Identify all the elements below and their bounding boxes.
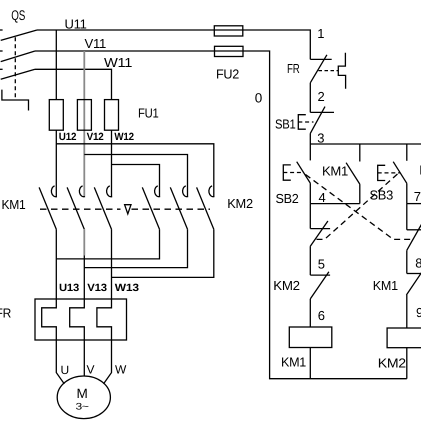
wire U12 to KM2 contact 3 [56,144,214,197]
svg-text:W: W [115,363,127,377]
wire coil KM2 to rail 0 [406,347,408,378]
svg-text:U13: U13 [59,282,79,294]
svg-text:4: 4 [319,190,326,205]
svg-text:KM1: KM1 [322,164,348,179]
wire U-phase drop to FU1 [55,30,57,100]
svg-text:W13: W13 [115,282,139,294]
node 4 label [319,190,326,205]
coil KM2 [387,328,421,348]
fuse FU2-1 [214,26,243,36]
contact KM1 NC right blade [406,270,421,295]
fuse FU2 label [216,67,239,82]
fuse FU1-1 [49,100,63,131]
node 0 label [255,90,262,105]
mechanical linkage triangle [125,205,131,214]
wire V-phase drop to FU1 (gray) [83,51,85,197]
contact KM2 aux label partial [419,163,421,178]
pushbutton SB1 blade [310,107,325,134]
interlock dash SB3 to left branch [317,174,398,240]
node U13 label [59,282,79,294]
thermal relay FR heater 1 [42,299,57,340]
fuse FU1-3 [105,100,119,131]
node W13 label [115,282,139,294]
switch QS pole 2 [0,51,35,62]
contactor KM2 label [227,196,253,211]
contactor KM1 label [2,197,26,212]
contact KM1 aux leg wire [359,144,361,162]
wire V13 link [84,229,187,267]
interlock dash SB2 to right branch [306,175,412,240]
svg-text:QS: QS [11,7,25,23]
switch QS pole 1 [0,30,37,40]
pushbutton SB2 dash link [283,172,303,174]
wire node 2 [309,83,311,113]
wire SB3 to node 7 [406,183,408,203]
wire KM1 contact 3 to FR [111,229,113,299]
contactor KM1 main contact 2 [67,186,85,229]
contact SB3 NC bar [310,228,330,230]
fuse FU1-2 [77,100,91,131]
svg-text:W11: W11 [104,55,132,70]
switch QS label [11,7,25,23]
thermal relay FR heater 2 [70,299,85,340]
wire node 3 [309,133,311,160]
terminal W label [115,363,127,377]
coil KM1 label [281,355,306,370]
fuse FU1 label [138,106,159,121]
coil KM2 label [378,356,406,371]
switch QS pole 3 [0,69,35,79]
pushbutton SB3 label [370,188,394,203]
svg-text:KM2: KM2 [227,196,253,211]
wire node 9 [406,295,408,328]
svg-text:U12: U12 [59,131,77,143]
node 7 bar [407,203,421,205]
svg-text:KM2: KM2 [378,356,406,371]
node W11 label [104,55,132,70]
motor 3-phase label [76,402,90,413]
svg-text:FR: FR [287,61,300,76]
node 4 bar [310,203,360,205]
contact KM1 aux label [322,164,348,179]
switch QS handle [2,90,29,111]
fuse FU2-2 [215,46,244,56]
wire KM1 contact 2 to FR [83,256,85,300]
svg-text:KM1: KM1 [281,355,306,370]
node U12 label [59,131,77,143]
wire KM1 contact 2 lower gray [83,229,85,255]
svg-text:U11: U11 [65,16,87,31]
pushbutton SB1 dash link [298,121,313,123]
svg-text:W12: W12 [114,131,134,143]
svg-text:U: U [61,363,69,377]
pushbutton SB1 bar [310,111,334,113]
wire V11 and return wire 0 [35,51,407,379]
wire KM1 contact 1 to FR [55,229,57,299]
svg-text:SB3: SB3 [370,188,394,203]
svg-text:9: 9 [416,305,421,320]
contact SB3 NC wire [309,204,311,229]
wire U12 vertical [55,130,57,197]
svg-text:0: 0 [255,90,262,105]
node V11 label [85,36,107,51]
contactor KM1 main contact 1 [39,186,57,229]
svg-text:8: 8 [415,255,421,270]
svg-text:FU2: FU2 [216,67,239,82]
node 9 label [416,305,421,320]
contact KM1 NC right label [373,278,398,293]
node U11 label [65,16,87,31]
wire FR to motor V [83,340,85,376]
terminal V label [87,363,95,377]
thermal contact FR label [287,61,300,76]
pushbutton SB2 blade [297,162,311,183]
wire node 6 [309,299,311,327]
wire V12 to KM2 contact 2 [84,155,187,197]
contact KM2 NC blade [310,272,329,299]
motor M circle [57,376,110,419]
mechanical linkage dashed [40,208,210,210]
wire W12 to KM2 contact 1 [112,165,160,197]
contact SB2 NC right blade [407,223,421,251]
svg-text:KM1: KM1 [2,197,26,212]
wire node 8 [406,250,408,273]
pushbutton SB3 wire [406,144,408,161]
thermal contact FR bar [310,58,331,60]
contact KM2 NC label [273,278,300,293]
node 3 label [317,130,324,145]
svg-text:KM1: KM1 [373,278,398,293]
pushbutton SB3 dash link [378,172,400,174]
pushbutton SB2 operator [283,165,291,180]
svg-text:SB2: SB2 [276,191,299,206]
svg-text:3: 3 [317,130,324,145]
svg-text:6: 6 [318,308,325,323]
contact KM2 NC bar [310,274,330,276]
thermal contact FR blade [310,55,327,83]
svg-text:V: V [87,363,95,377]
node 7 label [414,189,421,204]
svg-text:FR: FR [0,306,11,321]
svg-text:5: 5 [318,256,325,271]
svg-text:V11: V11 [85,36,107,51]
svg-text:KM2: KM2 [273,278,300,293]
contactor KM2 main contact 1 [142,186,160,229]
pushbutton SB3 operator [378,165,386,180]
wire FR to motor U [56,340,64,384]
contactor KM2 main contact 3 [197,186,215,229]
pushbutton SB3 blade [393,162,407,184]
wire FR to motor W [104,340,112,384]
wire W12 vertical [111,130,113,197]
wire SB2 to node 4 [309,183,311,204]
contact KM1 aux blade [346,163,360,184]
node 2 label [318,89,325,104]
switch QS linkage [14,37,16,100]
svg-text:1: 1 [317,26,324,41]
contact SB2 NC right wire [406,204,408,230]
wire W11 [35,69,112,99]
wire U11 [37,30,310,59]
node 5 label [318,256,325,271]
wire U13 link [56,229,159,259]
thermal relay FR box [35,299,127,340]
node V13 label [87,282,107,294]
thermal contact FR dash link [319,70,339,72]
svg-text:M: M [77,386,88,401]
pushbutton SB2 label [276,191,299,206]
svg-text:V12: V12 [87,131,104,143]
contactor KM2 main contact 2 [170,186,188,229]
node W12 label [114,131,134,143]
node V12 label [87,131,104,143]
node 8 label [415,255,421,270]
contact SB3 NC blade [310,221,328,246]
svg-text:V13: V13 [87,282,107,294]
wire node 5 [309,246,311,275]
thermal relay FR heater 3 [97,299,112,340]
coil KM1 [289,327,332,348]
svg-text:2: 2 [318,89,325,104]
svg-text:3~: 3~ [76,402,90,413]
svg-text:FU1: FU1 [138,106,159,121]
node 1 label [317,26,324,41]
pushbutton SB1 label [275,116,296,131]
thermal contact FR trip symbol [338,53,345,89]
pushbutton SB1 operator [298,115,306,130]
contactor KM1 main contact 3 [94,186,112,229]
wire W13 link [112,229,214,277]
wire rail 3 [310,143,421,145]
node 6 label [318,308,325,323]
svg-text:SB1: SB1 [275,116,296,131]
wire KM1 aux to node 4 [359,184,361,204]
terminal U label [61,363,69,377]
thermal relay FR label [0,306,11,321]
contact SB2 NC right bar [407,229,421,231]
svg-text:7: 7 [414,189,421,204]
node 8 bar [407,273,421,275]
wire coil KM1 to rail 0 [309,348,311,379]
motor M label [77,386,88,401]
